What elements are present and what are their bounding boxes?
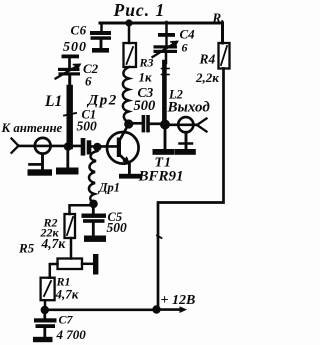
svg-text:1к: 1к	[139, 70, 153, 85]
transistor T1 circle	[107, 132, 139, 164]
connector X2 prongs	[197, 119, 207, 132]
node top rail junction	[125, 19, 132, 26]
inductor L1	[64, 76, 76, 147]
capacitor C5	[82, 205, 107, 236]
svg-text:4,7к: 4,7к	[55, 287, 79, 302]
svg-text:C7: C7	[59, 313, 74, 327]
wire R5 right to ground bar	[82, 263, 93, 266]
svg-text:Др1: Др1	[98, 181, 120, 195]
wire top rail from C6 to right corner	[100, 23, 223, 43]
connector X1 antenna prongs	[12, 139, 19, 153]
svg-text:Рис. 1: Рис. 1	[113, 0, 166, 20]
capacitor C6	[90, 23, 111, 48]
wire R2 to R5	[70, 238, 73, 259]
wire scan tick on supply rail	[157, 236, 162, 239]
svg-text:C6: C6	[71, 23, 87, 38]
transistor T1 base bar	[117, 138, 121, 158]
ground under C6	[92, 48, 109, 53]
node Dr1 bottom junction	[89, 200, 98, 209]
node output junction	[160, 120, 170, 130]
svg-text:R.: R.	[212, 10, 225, 25]
resistor R4	[219, 43, 230, 69]
svg-text:500: 500	[77, 119, 98, 134]
wire junction to R2	[70, 205, 94, 214]
svg-text:Др2: Др2	[86, 93, 118, 109]
capacitor C3	[142, 115, 150, 132]
inductor L2 output link	[162, 53, 170, 121]
wire junction to C3	[129, 122, 142, 125]
ground under C5	[84, 236, 106, 242]
wire R5 left to R1	[50, 264, 58, 278]
resistor R1	[41, 278, 55, 301]
wire antenna line	[18, 145, 81, 148]
ground bar right of R5	[93, 254, 98, 275]
ground under output connector	[175, 132, 196, 155]
svg-text:6: 6	[182, 41, 188, 55]
wire R4 down to supply corner	[158, 69, 224, 310]
transistor T1 emitter with arrow	[120, 155, 131, 174]
inductor Dr2 choke	[123, 67, 129, 122]
transistor T1 collector	[120, 124, 129, 140]
connector X1 circle	[35, 138, 51, 154]
capacitor C1	[81, 138, 92, 156]
wire bottom rail	[45, 308, 159, 311]
capacitor C4 (trimmer)	[153, 22, 178, 57]
svg-text:R4: R4	[199, 52, 216, 67]
ground under C7	[33, 337, 53, 342]
svg-text:L1: L1	[44, 93, 62, 110]
svg-text:6: 6	[85, 74, 92, 89]
node bottom-left junction	[41, 306, 49, 314]
svg-text:4 700: 4 700	[56, 327, 87, 342]
ground under output junction	[153, 126, 175, 155]
wire R1 to bottom rail	[44, 300, 47, 310]
resistor R3	[124, 43, 137, 67]
wire C3 to output junction	[150, 122, 161, 125]
wire +12V arrow	[158, 306, 187, 313]
svg-text:R5: R5	[18, 241, 35, 256]
wire C1 to base	[91, 145, 117, 148]
ground under L1 junction	[56, 148, 79, 175]
ground under emitter	[119, 174, 142, 179]
node +12V junction	[152, 305, 160, 313]
svg-text:+ 12В: + 12В	[161, 293, 196, 308]
svg-text:4,7к: 4,7к	[41, 236, 67, 251]
svg-text:R3: R3	[139, 56, 154, 70]
svg-text:500: 500	[107, 220, 128, 235]
svg-text:BFR91: BFR91	[138, 169, 184, 185]
resistor R5 (trimmer)	[58, 259, 83, 270]
svg-text:2,2к: 2,2к	[195, 70, 219, 85]
ground under antenna connector	[28, 154, 53, 176]
connector X2 output circle	[178, 117, 193, 132]
svg-text:Выход: Выход	[167, 100, 211, 116]
node base junction	[93, 143, 101, 151]
inductor Dr1 choke	[89, 151, 97, 203]
capacitor C2 (trimmer)	[56, 55, 81, 79]
node collector junction	[124, 119, 133, 128]
svg-text:К антенне: К антенне	[1, 121, 63, 135]
capacitor C7	[34, 310, 57, 337]
wire R3 branch stem	[128, 25, 131, 43]
svg-text:500: 500	[134, 98, 156, 114]
resistor R2	[65, 214, 76, 238]
wire junction to output connector	[165, 124, 197, 127]
svg-text:500: 500	[63, 40, 87, 55]
svg-text:C4: C4	[180, 27, 196, 42]
node L1/antenna junction	[64, 142, 73, 151]
